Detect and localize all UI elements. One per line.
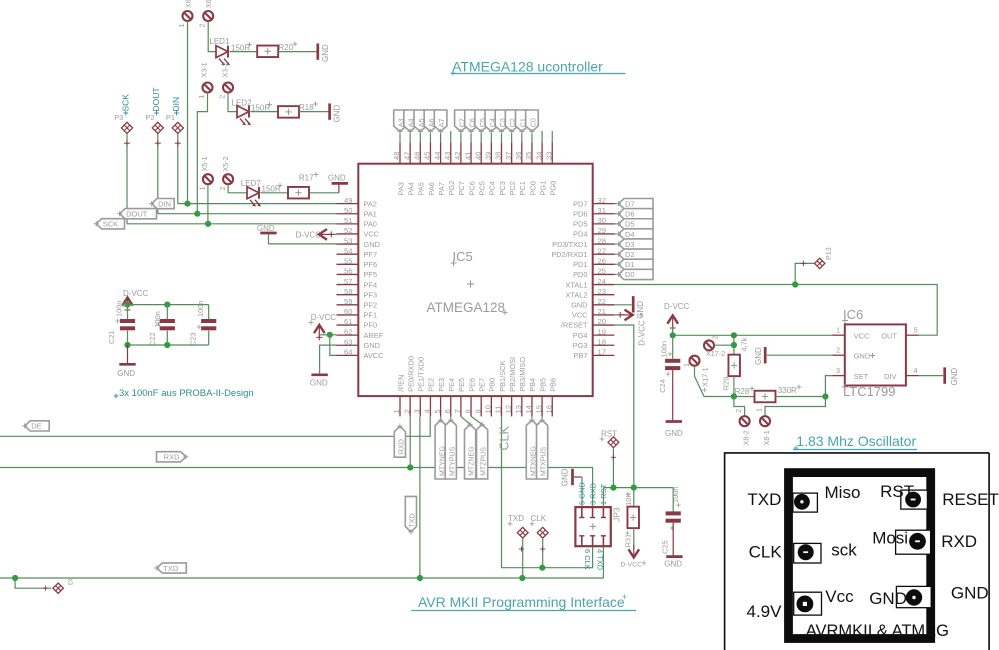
label R20 (278, 42, 297, 52)
svg-text:2: 2 (218, 187, 227, 191)
ground above wire (R17) (328, 174, 348, 193)
wire D-VCC to top rail (127, 305, 129, 308)
svg-text:MTXPUS: MTXPUS (541, 447, 548, 477)
svg-text:X3-2: X3-2 (220, 62, 229, 77)
supply D-VCC above C24 (664, 302, 690, 331)
svg-text:RESET: RESET (942, 490, 999, 509)
svg-text:46: 46 (413, 152, 422, 160)
svg-text:4: 4 (423, 409, 432, 413)
label X3-2 (220, 62, 229, 77)
inset label RST (880, 482, 914, 501)
net flags MTZNEG/MTZPUS on pins 7,8 (461, 416, 488, 479)
inset label GND right (951, 583, 989, 602)
svg-text:15: 15 (534, 405, 543, 413)
label JP3 (612, 507, 622, 522)
diode LED7 (247, 187, 261, 207)
svg-text:11: 11 (494, 406, 503, 414)
svg-text:54: 54 (344, 246, 352, 255)
ground pin63 (310, 375, 328, 388)
ground after R18 (330, 103, 342, 122)
svg-text:52: 52 (344, 226, 352, 235)
svg-text:14: 14 (524, 405, 533, 413)
label DIN (teal) (171, 97, 181, 116)
wire PA2 row (178, 203, 337, 205)
svg-text:PB0: PB0 (488, 378, 497, 392)
ground below C25 (664, 557, 682, 569)
junction C22 bottom (164, 342, 170, 348)
wire R31 top (633, 488, 635, 507)
svg-text:X3-1: X3-1 (200, 62, 209, 77)
svg-text:5: 5 (914, 325, 918, 334)
svg-text:64: 64 (344, 348, 352, 357)
svg-text:51: 51 (344, 216, 352, 225)
svg-text:VCC: VCC (854, 331, 870, 340)
junction PA1/X3-1 (194, 211, 200, 217)
svg-text:GND: GND (328, 174, 346, 183)
flag DOUT on PA1 (117, 209, 157, 219)
junction X17-2 tap (731, 342, 737, 348)
label TXD (pads) (508, 514, 525, 526)
svg-text:23: 23 (598, 287, 606, 296)
svg-text:17: 17 (598, 348, 606, 357)
IC5 right pins 32-17 with numbers and names (551, 196, 614, 360)
wire P13 branch (795, 261, 814, 285)
svg-text:43: 43 (443, 152, 452, 160)
svg-text:56: 56 (344, 267, 352, 276)
label 4 TXD (teal) (596, 549, 605, 571)
IC6 pin 2 GND (832, 345, 845, 355)
svg-text:5 GND: 5 GND (578, 481, 587, 505)
svg-text:OUT: OUT (881, 331, 897, 340)
pad P1 (172, 122, 183, 133)
svg-text:2: 2 (836, 345, 840, 354)
svg-text:PC3: PC3 (498, 181, 507, 195)
svg-text:GND: GND (257, 224, 275, 233)
svg-text:R18: R18 (299, 103, 314, 112)
wire X6-1 down to PA2 junction (187, 21, 189, 203)
svg-text:50: 50 (344, 206, 352, 215)
inset pad sck (794, 543, 821, 563)
pad RST (608, 437, 619, 448)
svg-text:Miso: Miso (825, 483, 861, 502)
svg-text:R17: R17 (299, 174, 314, 183)
svg-text:VCC: VCC (364, 230, 380, 239)
svg-text:PA1: PA1 (364, 209, 377, 218)
svg-text:GND: GND (754, 347, 763, 365)
svg-text:PC0: PC0 (528, 181, 537, 195)
wire R20 to GND (278, 51, 316, 53)
wire pin3 down (419, 416, 421, 578)
IC IC5 ATMEGA128 body (358, 164, 592, 396)
svg-text:X6-1: X6-1 (184, 0, 193, 8)
resistor R17 (288, 187, 309, 199)
svg-text:4 TXD: 4 TXD (596, 549, 605, 571)
svg-text:ATMEGA128 ucontroller: ATMEGA128 ucontroller (452, 59, 603, 75)
label 150R (LED2) (251, 102, 272, 112)
svg-text:D2: D2 (625, 250, 635, 259)
flag RXD on line B (157, 452, 189, 462)
label R31 (624, 531, 633, 548)
svg-text:RXD: RXD (164, 453, 180, 462)
wire C24 to GND (672, 370, 674, 420)
svg-text:PA4: PA4 (406, 182, 415, 195)
inset thick board frame (789, 473, 931, 639)
inset outer frame (725, 453, 990, 650)
inset label RESET (942, 490, 999, 509)
IC5 bottom pins 1-16 with numbers and names (392, 356, 557, 416)
wire VCC rail to IC6 pin1 (673, 334, 833, 336)
label 330R (778, 385, 802, 395)
svg-text:49: 49 (344, 196, 352, 205)
pad X17-1 (682, 356, 700, 367)
svg-text:1: 1 (177, 24, 186, 28)
svg-text:35: 35 (524, 152, 533, 160)
svg-text:PC5: PC5 (478, 181, 487, 195)
svg-text:R20: R20 (278, 43, 293, 52)
junction C21 top (124, 302, 130, 308)
svg-text:GND: GND (571, 301, 587, 310)
svg-text:4,7k: 4,7k (740, 337, 749, 351)
svg-text:D6: D6 (625, 210, 635, 219)
label X17-1 (701, 367, 710, 392)
wire pin2 down (409, 416, 411, 467)
label P3 (114, 113, 123, 122)
ground at pin 53 (257, 224, 337, 244)
svg-text:TXD: TXD (408, 513, 417, 527)
svg-text:PB7: PB7 (574, 351, 588, 360)
label X5-1 (200, 156, 209, 171)
svg-text:PE0/RXD0: PE0/RXD0 (406, 356, 415, 392)
svg-text:100n: 100n (671, 487, 680, 503)
supply D-VCC at AREF/AVCC (309, 313, 337, 340)
svg-text:58: 58 (344, 287, 352, 296)
supply D-VCC at pin 52 (296, 229, 337, 240)
svg-text:22: 22 (598, 297, 606, 306)
svg-text:X8-2: X8-2 (742, 430, 751, 445)
svg-text:PA6: PA6 (427, 182, 436, 195)
inset label TXD (747, 490, 781, 509)
svg-text:PB3/MISO: PB3/MISO (518, 357, 527, 392)
inset label Mosi (872, 529, 908, 548)
svg-text:MTZNEG: MTZNEG (469, 446, 476, 476)
title AVR MKII Programming Interface (411, 592, 636, 611)
svg-text:C24: C24 (658, 379, 667, 393)
svg-text:32: 32 (598, 196, 606, 205)
svg-text:PD6: PD6 (573, 209, 587, 218)
svg-text:JP3: JP3 (612, 507, 622, 522)
ground below C24 (665, 422, 683, 439)
svg-text:PC2: PC2 (508, 181, 517, 195)
wire C23 bottom lead (208, 331, 210, 345)
svg-text:XTAL2: XTAL2 (565, 290, 587, 299)
svg-text:DIN: DIN (158, 199, 171, 208)
svg-text:TXD: TXD (163, 564, 179, 573)
junction TXD pad (519, 575, 525, 581)
svg-text:C0: C0 (529, 118, 538, 127)
svg-text:PA5: PA5 (417, 182, 426, 195)
IC IC6 LTC1799 oscillator body (842, 307, 906, 399)
svg-text:PG1: PG1 (538, 181, 547, 196)
svg-text:PG0: PG0 (549, 181, 558, 196)
svg-text:PF0: PF0 (364, 321, 378, 330)
label R17 (299, 172, 319, 182)
svg-text:37: 37 (504, 152, 513, 160)
wire X3-2 to LED2 (228, 93, 237, 112)
wire JP3 pin5 up (581, 477, 583, 507)
junction C21 bottom (124, 342, 130, 348)
svg-text:2: 2 (711, 335, 720, 339)
svg-text:330R: 330R (778, 386, 797, 395)
junction R28 right (822, 393, 828, 399)
svg-text:GND: GND (665, 429, 683, 438)
IC6 pin 4 DIV (906, 366, 919, 376)
svg-text:47: 47 (402, 152, 411, 160)
svg-text:LTC1799: LTC1799 (843, 384, 896, 399)
wire RST pad down (611, 448, 616, 488)
pad X5-2 (218, 174, 233, 190)
svg-text:PF1: PF1 (364, 311, 378, 320)
svg-text:/RESET: /RESET (561, 321, 588, 330)
svg-text:40: 40 (473, 152, 482, 160)
svg-text:IC5: IC5 (453, 249, 473, 264)
svg-text:60: 60 (344, 307, 352, 316)
IC6 pin 3 SET (832, 366, 845, 376)
wire cap bottom rail (128, 344, 209, 346)
svg-text:3: 3 (413, 409, 422, 413)
net flags MTXNEG/MTXPUS on pins 14,15 (526, 416, 547, 479)
svg-text:PB4: PB4 (528, 378, 537, 392)
wire R29 bottom (733, 376, 735, 396)
svg-text:LED1: LED1 (209, 37, 230, 46)
junction R28 left (731, 393, 737, 399)
svg-text:P1: P1 (166, 113, 175, 122)
wire C23 top lead (208, 305, 210, 319)
svg-text:Vcc: Vcc (825, 587, 854, 606)
svg-text:GND: GND (854, 352, 870, 361)
wire C25 drop (673, 488, 681, 512)
IC5 top pins 48-33 with numbers and names (392, 142, 557, 195)
net flags C7-C0 on pins 42-35 (455, 110, 539, 142)
svg-text:PE1/TXD0: PE1/TXD0 (417, 357, 426, 392)
junction PA2/X-1 (184, 201, 190, 207)
label 6 CLK (teal) (583, 549, 592, 570)
svg-text:AVR MKII Programming Interface: AVR MKII Programming Interface (418, 594, 625, 610)
svg-text:5: 5 (433, 409, 442, 413)
svg-text:AREF: AREF (364, 331, 384, 340)
label X8-1 (762, 430, 771, 445)
svg-text:PF6: PF6 (364, 260, 378, 269)
label SCK (teal) (120, 94, 130, 116)
svg-text:38: 38 (494, 152, 503, 160)
label X6-2 (cut off) (204, 0, 213, 8)
inset label GND inside (869, 589, 907, 608)
label 150R (LED7) (262, 183, 283, 193)
wire DE/RXD2 net (line A) (0, 416, 430, 436)
inset label Miso (825, 483, 861, 502)
wire C21 bottom lead (127, 331, 129, 345)
svg-text:PE6: PE6 (467, 378, 476, 392)
wire C22 top lead (166, 305, 168, 319)
svg-text:59: 59 (344, 297, 352, 306)
svg-text:R29: R29 (722, 377, 731, 391)
wire arrow to junction (319, 334, 330, 336)
svg-text:VCC: VCC (572, 311, 588, 320)
wire RST net horizontal (603, 487, 673, 489)
wire PA0 row (127, 223, 337, 225)
svg-text:PE7: PE7 (478, 378, 487, 392)
svg-text:9: 9 (473, 409, 482, 413)
svg-text:1: 1 (682, 363, 691, 367)
svg-text:AVRMKII & ATMEG: AVRMKII & ATMEG (806, 622, 949, 640)
ground at JP3 pin 5 (561, 468, 583, 486)
svg-text:PC1: PC1 (518, 181, 527, 195)
svg-text:PA0: PA0 (364, 220, 377, 229)
label LED1 (209, 37, 230, 46)
svg-text:DE: DE (31, 422, 41, 431)
svg-text:53: 53 (344, 236, 352, 245)
wire X8-1 drop (765, 397, 825, 417)
svg-text:100n: 100n (660, 341, 669, 357)
pad X6-2 (198, 11, 214, 28)
svg-text:DI: DI (68, 578, 75, 585)
IC6 pin 1 VCC (832, 325, 845, 335)
svg-text:21: 21 (598, 307, 606, 316)
svg-text:SCK: SCK (103, 220, 118, 229)
resistor R18 (278, 106, 299, 118)
label RST (pad) (600, 430, 618, 442)
svg-text:GND: GND (364, 240, 380, 249)
IC6 pin 5 OUT (906, 325, 919, 335)
svg-text:MTZPUS: MTZPUS (481, 447, 488, 476)
svg-text:62: 62 (344, 327, 352, 336)
svg-text:8: 8 (463, 409, 472, 413)
svg-text:AVCC: AVCC (364, 351, 385, 360)
svg-text:1.83 Mhz Oscillator: 1.83 Mhz Oscillator (796, 433, 916, 449)
label X6-1 (cut off) (184, 0, 193, 8)
svg-text:P2: P2 (145, 113, 154, 122)
flag SCK on PA0 (94, 219, 125, 229)
svg-text:D-VCC: D-VCC (638, 320, 647, 346)
svg-text:100n: 100n (153, 311, 162, 327)
capacitor C25 (661, 487, 681, 554)
svg-text:PD4: PD4 (573, 230, 587, 239)
svg-text:20: 20 (598, 317, 606, 326)
svg-text:1: 1 (836, 325, 840, 334)
wire R29 branch (733, 335, 735, 354)
svg-text:RXD: RXD (397, 439, 406, 454)
svg-text:45: 45 (423, 152, 432, 160)
inset label 4.9V (747, 602, 783, 621)
title 1.83 Mhz Oscillator (793, 433, 917, 450)
svg-text:C23: C23 (189, 332, 198, 346)
wire CLK net (line C) (502, 416, 593, 567)
svg-text:41: 41 (463, 152, 472, 160)
svg-text:ATMEGA128: ATMEGA128 (427, 300, 506, 315)
svg-text:/PEN: /PEN (396, 375, 405, 392)
inset caption AVRMKII & ATMEG (806, 622, 949, 640)
svg-text:PD5: PD5 (573, 220, 587, 229)
svg-text:PE5: PE5 (457, 378, 466, 392)
wire R18 to GND (299, 111, 329, 113)
svg-text:61: 61 (344, 317, 352, 326)
svg-text:GND: GND (117, 369, 135, 378)
svg-text:PF5: PF5 (364, 270, 378, 279)
svg-text:4.9V: 4.9V (747, 602, 783, 621)
wire /RESET pin20 down to RST net (614, 325, 633, 488)
svg-text:100n: 100n (196, 301, 205, 317)
svg-text:PD2/RXD1: PD2/RXD1 (551, 250, 587, 259)
supply D-VCC below R31 (621, 545, 647, 569)
svg-text:D-VCC: D-VCC (621, 562, 643, 569)
svg-text:CLK: CLK (749, 542, 783, 561)
wire to GND below caps (127, 345, 129, 363)
resistor R28 (755, 391, 776, 403)
svg-text:CLK: CLK (498, 426, 512, 451)
svg-text:GND: GND (951, 583, 989, 602)
flag TXD vertical above line D (405, 496, 416, 534)
net flags D7-D0 on pins 32-25 (614, 199, 653, 280)
inset label sck (831, 540, 857, 559)
wire CLK pad down (540, 538, 545, 568)
label X17-2 (706, 349, 725, 358)
svg-text:X17-1: X17-1 (701, 367, 710, 386)
svg-text:2: 2 (198, 24, 207, 28)
wire stubs on pins 43, 34, 33 (451, 131, 553, 142)
svg-text:XTAL1: XTAL1 (565, 280, 587, 289)
svg-text:CLK: CLK (531, 514, 547, 523)
svg-text:57: 57 (344, 277, 352, 286)
wire RST to JP3 pin1 (602, 488, 604, 508)
svg-text:PA7: PA7 (437, 182, 446, 195)
svg-text:X17-2: X17-2 (706, 349, 725, 358)
svg-text:34: 34 (534, 152, 543, 160)
svg-text:PA3: PA3 (396, 182, 405, 195)
label X3-1 (200, 62, 209, 77)
svg-text:RST: RST (601, 430, 617, 439)
junction far-left TXD (12, 575, 18, 581)
label CLK big (498, 426, 512, 451)
svg-text:D5: D5 (625, 220, 635, 229)
svg-text:44: 44 (433, 152, 442, 160)
svg-text:16: 16 (544, 405, 553, 413)
svg-text:PD3/TXD1: PD3/TXD1 (552, 240, 587, 249)
svg-text:PE4: PE4 (447, 378, 456, 392)
svg-text:sck: sck (831, 540, 857, 559)
IC5 left pins 49-64 with numbers and names (337, 196, 385, 360)
svg-text:30: 30 (598, 216, 606, 225)
inset pad GND (896, 586, 931, 607)
wire R17 to GND (310, 192, 339, 194)
net flags MTYNEG/MTYPUS on pins 5,6 (435, 416, 456, 479)
resistor R20 (257, 46, 278, 58)
svg-text:PG3: PG3 (573, 341, 588, 350)
wire X17-1 to R28 junction (695, 366, 734, 397)
wire X5-1 to PA0 junction (207, 185, 209, 224)
svg-text:RXD: RXD (941, 532, 977, 551)
svg-text:36: 36 (514, 152, 523, 160)
svg-text:10: 10 (484, 405, 493, 413)
svg-text:D1: D1 (625, 260, 635, 269)
inset pad Miso (793, 493, 818, 512)
junction RXD pin2 (407, 464, 413, 470)
inset label RXD right (941, 532, 977, 551)
svg-text:PB6: PB6 (549, 378, 558, 392)
svg-text:13: 13 (514, 405, 523, 413)
svg-text:GND: GND (310, 379, 328, 388)
svg-text:PE3: PE3 (437, 378, 446, 392)
svg-text:RST: RST (880, 482, 914, 501)
svg-text:PE2: PE2 (427, 378, 436, 392)
